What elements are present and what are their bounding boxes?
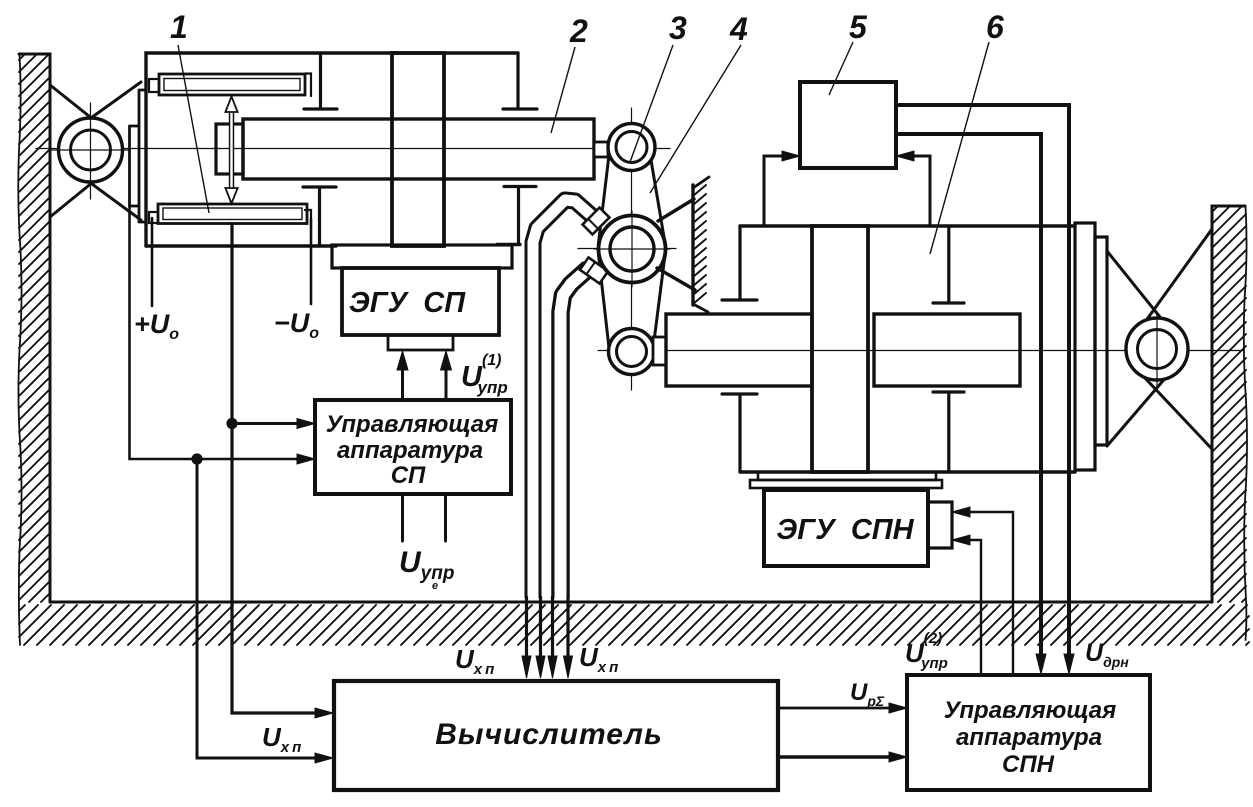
- rod left of piston: [666, 314, 812, 386]
- control apparatus SPN box: [907, 675, 1150, 790]
- svg-text:3: 3: [669, 10, 687, 46]
- right wall outline: [1212, 206, 1245, 602]
- EGU SPN box: [764, 490, 928, 566]
- EGU SP box: [342, 268, 499, 335]
- left bearing: [59, 118, 123, 182]
- leader 3: [630, 45, 673, 162]
- rod to pulley connector: [594, 142, 608, 157]
- lever link 4 outline: [599, 155, 666, 349]
- pipe stub upper: [583, 208, 610, 235]
- svg-text:1: 1: [170, 9, 188, 45]
- computer box: [334, 681, 778, 790]
- port T bottom-right: [504, 187, 536, 245]
- computer to SPN control wire lower: [778, 755, 895, 758]
- svg-text:4: 4: [729, 11, 748, 47]
- piston left: [392, 53, 444, 246]
- box5 bracket left: [764, 156, 788, 226]
- left wall outline: [19, 54, 50, 602]
- pipe arrows into computer: [522, 656, 531, 678]
- svg-text:2: 2: [569, 13, 588, 49]
- port T bottom-left: [303, 187, 336, 246]
- bracket wall strip: [691, 185, 694, 305]
- box5 bracket right: [908, 156, 930, 226]
- wire box5 to SPN control (outer): [896, 105, 1069, 660]
- svg-text:СП: СП: [391, 462, 426, 489]
- leader 6: [930, 42, 989, 254]
- hydraulic pipe B: [561, 268, 590, 598]
- pulley vertical centerline: [631, 108, 633, 390]
- port T right bottom: [933, 392, 964, 472]
- svg-text:6: 6: [986, 9, 1004, 45]
- computer to SPN control wire upper: [778, 707, 895, 710]
- svg-text:ЭГУ СП: ЭГУ СП: [349, 287, 466, 319]
- leader 1: [178, 45, 209, 213]
- leader 5: [829, 42, 853, 95]
- left cylinder cap: [130, 90, 147, 222]
- EGU SP flange: [332, 245, 512, 268]
- double arrow between plates: [229, 108, 234, 192]
- left wall hatching: [19, 54, 50, 602]
- svg-text:е: е: [432, 580, 438, 592]
- wire box5 to SPN control (inner): [896, 134, 1041, 660]
- branch to control box upper input: [232, 422, 303, 425]
- svg-text:ЭГУ СПН: ЭГУ СПН: [776, 514, 914, 546]
- wire SPN control to connector (lower): [966, 540, 981, 675]
- port T right top: [933, 226, 964, 303]
- end caps right: [1075, 223, 1095, 470]
- svg-text:5: 5: [849, 9, 868, 45]
- svg-text:Управляющая: Управляющая: [944, 697, 1117, 724]
- SP box output stubs: [403, 494, 446, 541]
- wire from cap to control box (lower input): [130, 206, 304, 459]
- EGU SPN connector: [928, 502, 952, 548]
- leader 2: [551, 47, 575, 133]
- pipe stub lower: [580, 257, 608, 283]
- left axis centerline: [36, 148, 670, 150]
- node junction: [191, 453, 202, 464]
- svg-text:Управляющая: Управляющая: [326, 411, 499, 438]
- wire +Uo: [151, 218, 154, 306]
- svg-text:Вычислитель: Вычислитель: [435, 718, 663, 751]
- pulley-rod connector lower: [653, 337, 666, 365]
- wiper wire to control box and computer: [232, 224, 321, 714]
- rod right of piston: [874, 314, 1020, 386]
- right axis centerline: [598, 350, 1243, 352]
- svg-text:СПН: СПН: [1002, 751, 1055, 778]
- bracket arms: [657, 199, 695, 290]
- slider block: [216, 124, 243, 174]
- cylinder 2 housing: [146, 53, 518, 246]
- wire SPN control to connector (upper): [966, 512, 1013, 675]
- svg-text:аппаратура: аппаратура: [956, 724, 1102, 751]
- wire junction down to computer (lower): [197, 459, 321, 758]
- potentiometer top plate: [159, 74, 305, 95]
- ground strip top edge: [50, 601, 1212, 604]
- right bearing support X: [1107, 229, 1212, 449]
- hydraulic pipe A: [533, 200, 592, 598]
- svg-text:аппаратура: аппаратура: [337, 437, 483, 464]
- port T top-left: [304, 53, 337, 109]
- right bearing: [1126, 318, 1188, 380]
- ground hatching: [19, 605, 1249, 645]
- control apparatus SP box: [315, 400, 511, 494]
- pulley middle: [599, 216, 666, 283]
- cylinder 6 housing: [740, 226, 1075, 472]
- wire -Uo: [310, 219, 313, 304]
- piston right: [812, 226, 868, 472]
- pulley bottom: [609, 329, 655, 375]
- box 5: [800, 82, 896, 168]
- piston rod left: [243, 119, 594, 179]
- EGU SPN flange: [758, 472, 936, 480]
- leader 4: [650, 45, 741, 193]
- right wall hatching: [1212, 206, 1246, 602]
- control arrows into EGU SP: [401, 360, 404, 400]
- left bearing support X: [50, 82, 141, 220]
- potentiometer bottom plate: [158, 204, 307, 224]
- pulley 3 (top): [608, 124, 655, 171]
- EGU SP bottom stub: [388, 335, 453, 350]
- port T top-right: [503, 53, 537, 109]
